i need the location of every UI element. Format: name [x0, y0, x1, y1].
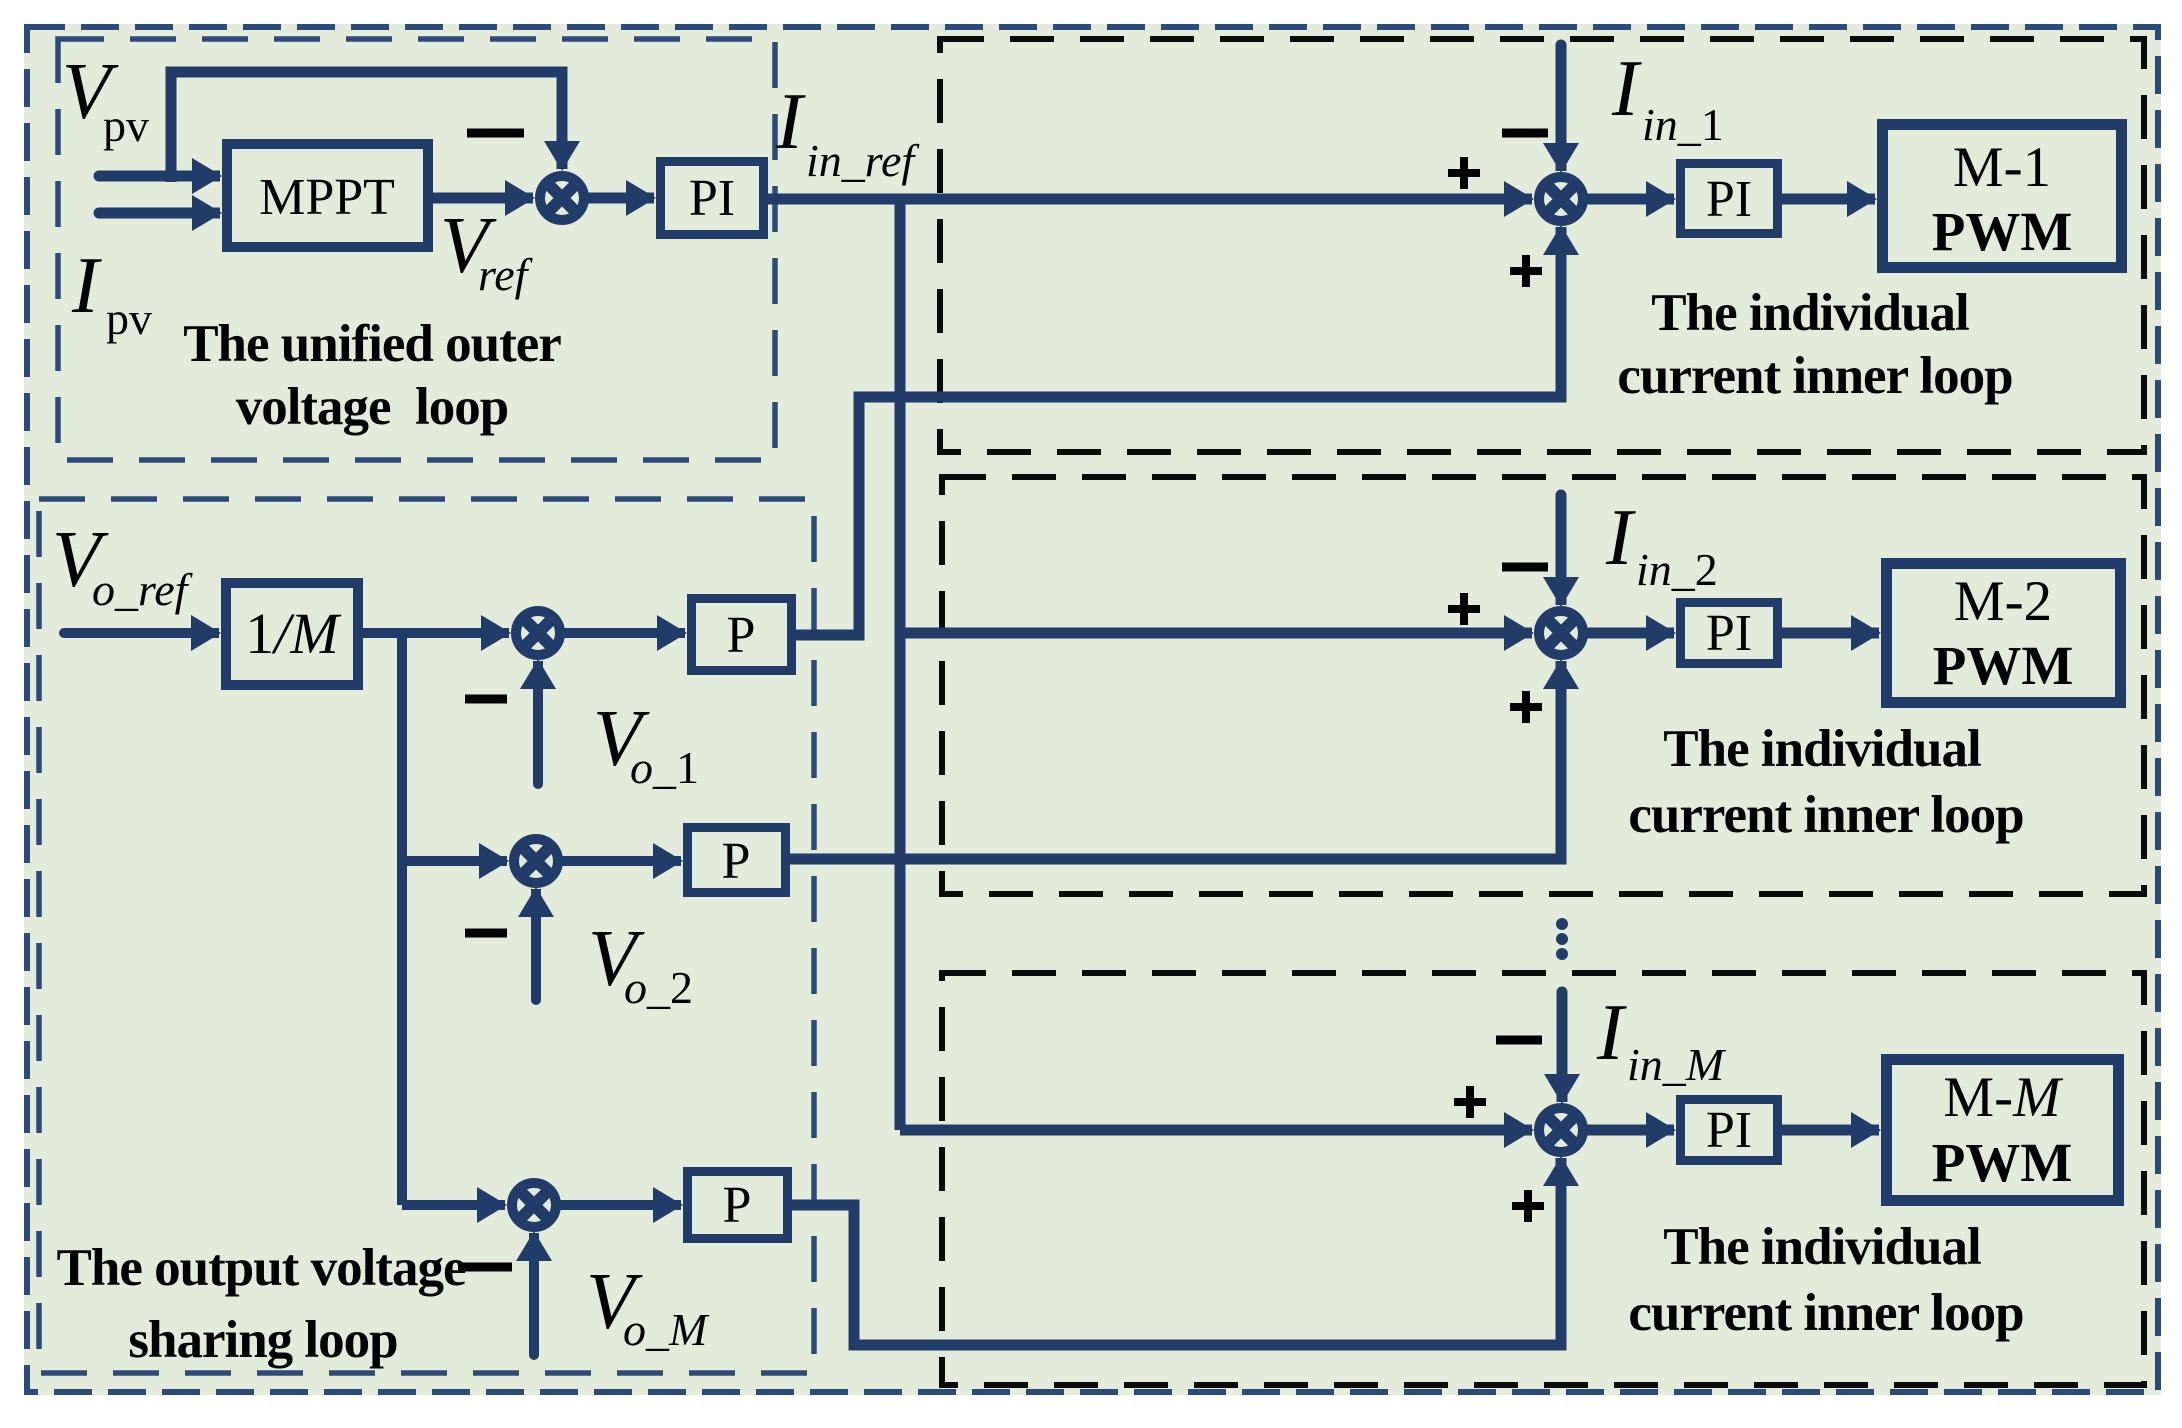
dashed box: individual current inner loop 2	[942, 477, 2144, 894]
svg-text:P: P	[722, 833, 751, 890]
wire Iin_ref to junction J2	[900, 628, 1532, 639]
wire S1 to P1	[564, 628, 685, 638]
wire Iin_ref to junction J3	[900, 1125, 1532, 1136]
svg-text:pv: pv	[106, 293, 152, 344]
wire P2 output feed to J2 bottom	[790, 661, 1561, 859]
svg-text:o_ref: o_ref	[92, 564, 194, 615]
svg-text:The individual: The individual	[1663, 720, 1981, 778]
summing junction S3	[512, 1183, 556, 1227]
vertical ellipsis dots	[1556, 918, 1568, 930]
dashed box: individual current inner loop M	[942, 973, 2144, 1385]
wire P3 output feed to J3 bottom	[792, 1158, 1561, 1345]
svg-text:current inner loop: current inner loop	[1628, 786, 2023, 844]
svg-text:The individual: The individual	[1651, 284, 1969, 342]
dashed box: output voltage sharing loop	[39, 499, 814, 1373]
svg-text:current inner loop: current inner loop	[1617, 347, 2012, 405]
dashed box: individual current inner loop 1	[940, 39, 2144, 452]
wire bus to S3	[402, 1200, 505, 1210]
summing junction J1	[1539, 177, 1583, 221]
summing junction J3	[1539, 1108, 1583, 1152]
svg-text:PI: PI	[1706, 1102, 1752, 1159]
wire Vo_M into S3	[529, 1233, 539, 1355]
svg-text:The individual: The individual	[1663, 1218, 1981, 1276]
svg-text:I: I	[1605, 494, 1636, 582]
block PI 3	[1681, 1100, 1778, 1161]
wire Vpv input	[99, 171, 220, 182]
svg-text:o_1: o_1	[630, 742, 699, 793]
minus sign at S1	[465, 695, 507, 704]
svg-text:ref: ref	[478, 249, 534, 300]
svg-text:PWM: PWM	[1932, 201, 2073, 262]
block M-2 PWM	[1887, 564, 2121, 703]
wire PI1 to M-1 PWM	[1782, 194, 1875, 205]
plus sign below J1	[1510, 255, 1542, 287]
svg-text:in_1: in_1	[1642, 99, 1724, 150]
block M-1 PWM	[1883, 125, 2122, 268]
svg-text:PWM: PWM	[1932, 1132, 2073, 1193]
block PI 2	[1681, 603, 1778, 664]
svg-text:in_M: in_M	[1627, 1039, 1727, 1090]
wire PI3 to M-M PWM	[1782, 1125, 1879, 1136]
wire S2 to P2	[562, 856, 681, 866]
svg-text:sharing loop: sharing loop	[128, 1311, 397, 1369]
minus sign at J1	[1502, 129, 1548, 138]
plus sign left of J1	[1448, 157, 1480, 189]
wire Iin_M into J3	[1557, 992, 1568, 1102]
minus sign at J3	[1496, 1036, 1542, 1045]
wire 1/M output to S1	[363, 628, 509, 638]
svg-text:PI: PI	[1706, 605, 1752, 662]
svg-text:pv: pv	[103, 100, 149, 151]
wire PI2 to M-2 PWM	[1782, 628, 1879, 639]
block PI 1	[1681, 164, 1778, 234]
wire Vo_ref input	[64, 628, 219, 638]
wire Iin_ref vertical distribution bus	[895, 199, 906, 1130]
svg-text:1/M: 1/M	[245, 601, 341, 666]
svg-text:The output voltage: The output voltage	[57, 1239, 466, 1297]
wire J0 to PI	[588, 193, 654, 204]
wire MPPT to J0	[433, 193, 533, 204]
minus sign at J0	[467, 129, 524, 138]
wire P1 output feed to J1 bottom	[796, 227, 1561, 635]
svg-text:M-1: M-1	[1953, 136, 2051, 199]
wire Iin_1 into J1	[1556, 45, 1567, 171]
block P 1	[692, 599, 792, 671]
svg-text:I: I	[71, 242, 102, 330]
minus sign at S2	[465, 929, 507, 938]
plus sign left of J3	[1454, 1086, 1486, 1118]
wire bus to S2	[402, 856, 507, 866]
svg-text:I: I	[1596, 989, 1627, 1077]
plus sign below J2	[1510, 691, 1542, 723]
svg-text:voltage loop: voltage loop	[236, 378, 509, 436]
wire 1/M branch bus	[397, 633, 407, 1205]
wire Ipv input	[99, 208, 220, 219]
minus sign at J2	[1502, 563, 1548, 572]
svg-text:o_2: o_2	[624, 962, 693, 1013]
summing junction S1	[516, 611, 560, 655]
svg-text:PI: PI	[1706, 171, 1752, 228]
wire Vo_1 into S1	[533, 661, 543, 784]
plus sign below J3	[1512, 1190, 1544, 1222]
svg-text:in_ref: in_ref	[806, 135, 920, 186]
svg-text:I: I	[775, 78, 806, 166]
wire J2 to PI2	[1587, 628, 1674, 639]
block PI outer	[661, 162, 764, 235]
svg-text:P: P	[723, 1177, 752, 1234]
summing junction S2	[514, 839, 558, 883]
svg-text:current inner loop: current inner loop	[1628, 1284, 2023, 1342]
summing junction J2	[1539, 611, 1583, 655]
wire Vo_2 into S2	[531, 889, 541, 1000]
wire J1 to PI1	[1587, 194, 1674, 205]
svg-text:The unified outer: The unified outer	[183, 315, 561, 373]
wire Vpv feedback branch to summing junction J0	[171, 72, 562, 182]
dashed box: unified outer voltage loop	[58, 39, 775, 460]
wire PI output Iin_ref main line	[768, 194, 1532, 205]
block MPPT	[227, 144, 428, 247]
svg-text:M-2: M-2	[1954, 570, 2052, 633]
svg-text:PWM: PWM	[1933, 635, 2074, 696]
svg-text:o_M: o_M	[623, 1304, 710, 1355]
block 1/M divider	[226, 583, 358, 685]
svg-text:M-M: M-M	[1943, 1066, 2064, 1129]
plus sign left of J2	[1448, 593, 1480, 625]
wire S3 to P3	[560, 1200, 681, 1210]
block M-M PWM	[1887, 1060, 2119, 1201]
wire Iin_2 into J2	[1556, 495, 1567, 605]
svg-text:P: P	[727, 607, 756, 664]
minus sign at S3	[460, 1263, 512, 1272]
summing junction J0	[540, 176, 584, 220]
block P 2	[688, 828, 786, 893]
svg-text:MPPT: MPPT	[259, 169, 395, 226]
svg-text:in_2: in_2	[1636, 544, 1718, 595]
wire J3 to PI3	[1587, 1125, 1674, 1136]
block P 3	[688, 1172, 788, 1239]
svg-text:PI: PI	[689, 170, 735, 227]
wire end caps	[59, 40, 1568, 1361]
svg-text:I: I	[1611, 45, 1642, 133]
